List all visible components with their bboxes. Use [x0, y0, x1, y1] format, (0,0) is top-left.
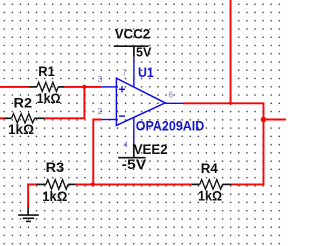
resistor R1 [29, 82, 64, 91]
svg-text:2: 2 [98, 107, 103, 116]
pin 3 wire (+ input) [102, 86, 117, 88]
node junction dot on output row [229, 102, 232, 105]
svg-text:VCC2: VCC2 [115, 26, 151, 42]
svg-text:VEE2: VEE2 [134, 141, 168, 157]
wire: main vertical from top edge [230, 0, 232, 103]
wire: branch to right edge [264, 119, 287, 121]
wire: net R1 left to image edge [0, 86, 30, 88]
power VEE2 symbol [118, 144, 145, 158]
wire: R2 right up to +input junction [45, 87, 85, 118]
resistor R2 [5, 114, 45, 123]
svg-text:4: 4 [123, 140, 128, 149]
pin 2 wire (- input) [102, 119, 117, 121]
resistor R4 [192, 180, 232, 190]
wire: R3 to R4 [75, 183, 192, 185]
svg-text:5V: 5V [136, 44, 152, 59]
svg-text:R3: R3 [46, 159, 65, 175]
svg-text:6: 6 [169, 91, 174, 100]
wire: output row to right vertical and down to R4 [183, 103, 264, 184]
svg-text:-5V: -5V [122, 156, 147, 172]
pin 4 wire (V-) [133, 118, 135, 144]
op-amp minus input marking [119, 115, 125, 117]
svg-text:1kΩ: 1kΩ [8, 121, 34, 137]
wire: net R2 left to image edge [0, 117, 5, 119]
wire: -input node down to R3/R4 row [93, 120, 101, 185]
svg-text:R2: R2 [14, 94, 33, 110]
svg-text:3: 3 [98, 75, 103, 84]
node junction dot on R3/R4 row [91, 182, 95, 186]
svg-text:OPA209AID: OPA209AID [136, 117, 205, 133]
resistor R3 [37, 180, 76, 190]
pin 7 wire (V+) [133, 57, 135, 87]
svg-text:1kΩ: 1kΩ [37, 90, 61, 106]
ground [18, 207, 39, 221]
svg-text:7: 7 [122, 69, 127, 78]
wire: R3 left to ground [28, 184, 36, 207]
node junction dot output branch [261, 117, 267, 123]
svg-text:U1: U1 [138, 64, 154, 80]
svg-text:1kΩ: 1kΩ [198, 188, 222, 204]
svg-text:R1: R1 [38, 63, 55, 79]
pin 6 wire (output) [165, 102, 183, 104]
node junction dot on +input [82, 85, 86, 89]
power VCC2 symbol [114, 46, 149, 57]
op-amp plus input marking [119, 88, 125, 90]
svg-text:R4: R4 [201, 160, 218, 176]
svg-text:1kΩ: 1kΩ [42, 188, 67, 204]
op-amp U1 triangle [102, 57, 184, 144]
wire: R1 right to +input node [64, 86, 102, 88]
